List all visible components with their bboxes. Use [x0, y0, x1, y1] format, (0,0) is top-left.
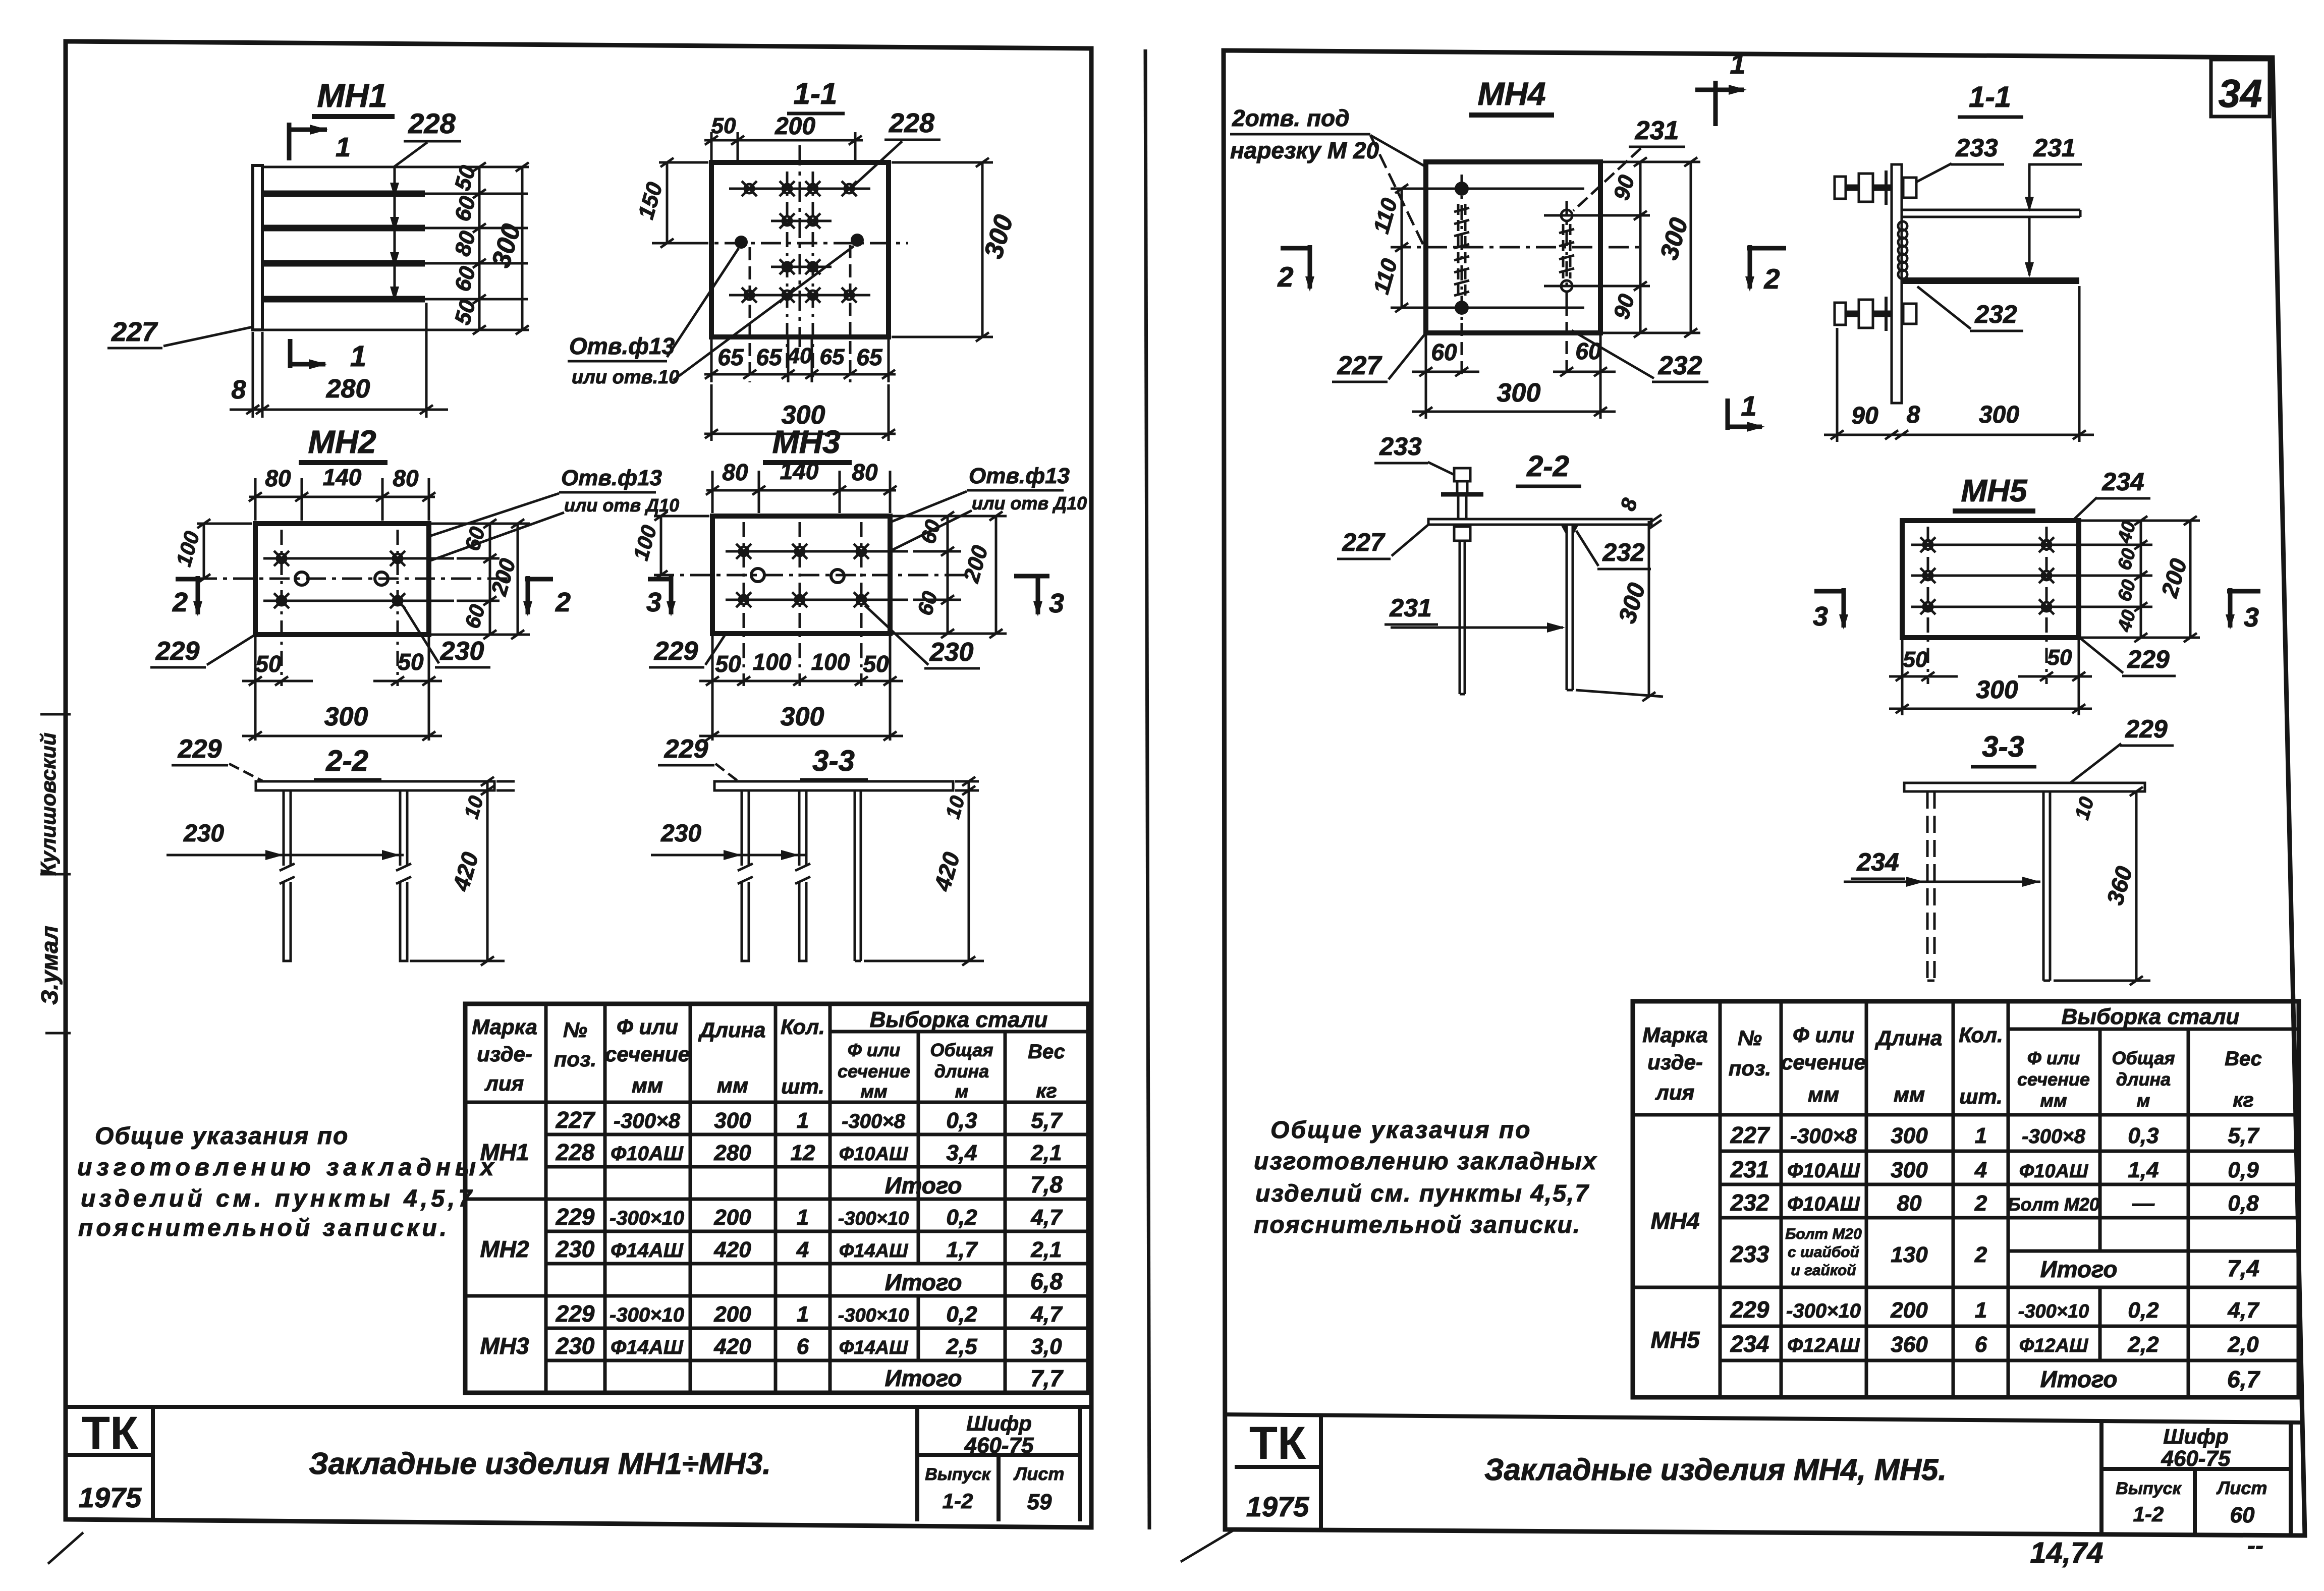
plate 229 МН3 — [712, 516, 890, 634]
svg-text:12: 12 — [791, 1141, 815, 1165]
anchors 230 row2 МН2 — [263, 593, 454, 608]
svg-text:6,7: 6,7 — [2227, 1366, 2260, 1392]
svg-text:14,74: 14,74 — [2030, 1537, 2103, 1569]
table grid right — [1633, 1001, 2299, 1397]
svg-text:1975: 1975 — [1246, 1491, 1309, 1522]
svg-text:230: 230 — [929, 638, 974, 667]
svg-text:-300×8: -300×8 — [1790, 1124, 1857, 1148]
svg-text:1-2: 1-2 — [943, 1489, 973, 1513]
svg-text:100: 100 — [811, 649, 850, 675]
dim 300 right 1-1 — [892, 158, 1019, 342]
label 229 МН5 — [2081, 639, 2176, 676]
svg-text:шт.: шт. — [1959, 1085, 2003, 1108]
svg-text:6: 6 — [797, 1334, 809, 1359]
rod 231 top (1-1 right) — [1902, 210, 2080, 217]
svg-text:пояснительной записки.: пояснительной записки. — [78, 1215, 450, 1241]
label 228 (1-1) — [854, 108, 940, 186]
left page frame — [66, 41, 1091, 1527]
table rows МН4 — [1650, 1122, 2260, 1282]
svg-text:300: 300 — [714, 1108, 751, 1133]
svg-text:Лист: Лист — [2216, 1478, 2267, 1498]
svg-text:-300×8: -300×8 — [2022, 1125, 2085, 1148]
anchors 230 row1 МН3 — [726, 544, 908, 559]
svg-text:МН5: МН5 — [1961, 474, 2028, 508]
svg-text:0,2: 0,2 — [946, 1302, 977, 1327]
table grid — [465, 1004, 1088, 1393]
svg-text:З.умал: З.умал — [36, 926, 63, 1005]
svg-text:Вес: Вес — [1028, 1041, 1065, 1063]
dim 230 in 3-3 — [651, 820, 806, 860]
hole row lines МН4 — [1408, 189, 1650, 308]
svg-text:4: 4 — [796, 1237, 809, 1262]
section marker 1 top right (МН4) — [1695, 48, 1747, 126]
table rows МН5 — [1650, 1296, 2260, 1392]
section marker 2 right МН2 — [523, 576, 571, 617]
dim 230 in 2-2 — [167, 820, 404, 860]
svg-text:Ф12АШ: Ф12АШ — [2019, 1335, 2088, 1356]
svg-text:420: 420 — [713, 1334, 751, 1359]
svg-text:2: 2 — [555, 587, 571, 617]
svg-text:Выборка стали: Выборка стали — [2062, 1004, 2240, 1029]
svg-text:230: 230 — [183, 820, 224, 847]
svg-text:МН4: МН4 — [1650, 1208, 1699, 1234]
svg-text:Кол.: Кол. — [1959, 1023, 2003, 1047]
svg-text:80: 80 — [1897, 1191, 1922, 1216]
svg-text:50: 50 — [255, 651, 282, 677]
anchor 230 right in 2-2 — [396, 790, 411, 961]
svg-text:3-3: 3-3 — [812, 745, 855, 777]
svg-text:-300×8: -300×8 — [842, 1110, 905, 1132]
bolt 233 bottom (1-1 right) — [1835, 297, 1916, 331]
title block left page — [48, 1407, 1091, 1564]
label 232 (2-2 right) — [1576, 531, 1651, 569]
svg-text:2,1: 2,1 — [1030, 1237, 1062, 1262]
svg-text:1975: 1975 — [79, 1482, 142, 1513]
section marker 3 right МН3 — [1014, 576, 1064, 618]
anchors 231/232 column — [1559, 201, 1574, 303]
svg-text:50: 50 — [2048, 645, 2072, 670]
svg-text:230: 230 — [660, 820, 701, 847]
plate 227 (2-2 right) — [1428, 519, 1651, 525]
svg-text:МН2: МН2 — [480, 1236, 529, 1262]
svg-text:МН3: МН3 — [772, 424, 840, 460]
section marker 3 right МН5 — [2226, 588, 2260, 633]
svg-text:2-2: 2-2 — [325, 745, 368, 777]
dim 300 bottom МН2 — [242, 702, 442, 741]
svg-text:230: 230 — [440, 637, 484, 666]
svg-text:-300×8: -300×8 — [614, 1109, 681, 1132]
svg-text:460-75: 460-75 — [964, 1433, 1034, 1458]
svg-text:300: 300 — [1891, 1158, 1928, 1182]
svg-text:40: 40 — [787, 344, 812, 368]
anchor column lines МН2 — [282, 530, 398, 686]
svg-text:65: 65 — [756, 344, 783, 370]
label 233 (1-1 right) — [1911, 134, 2004, 185]
МН2 title — [299, 424, 388, 463]
svg-text:Ф14АШ: Ф14АШ — [839, 1240, 908, 1262]
anchor plate 232 (1-1 right) — [1902, 277, 2079, 284]
svg-text:Закладные изделия МН4, МН5.: Закладные изделия МН4, МН5. — [1484, 1453, 1947, 1487]
dims 60/60 and 200 right МН2 — [431, 519, 530, 639]
svg-text:Марка: Марка — [472, 1015, 537, 1039]
svg-text:232: 232 — [1974, 300, 2017, 328]
svg-text:Болт М20: Болт М20 — [2008, 1194, 2099, 1215]
svg-text:пояснительной записки.: пояснительной записки. — [1254, 1212, 1581, 1238]
svg-text:Ф10АШ: Ф10АШ — [1787, 1193, 1860, 1215]
svg-text:Отв.ф13: Отв.ф13 — [561, 466, 662, 490]
svg-text:№: № — [1738, 1026, 1762, 1050]
section marker 3 left МН5 — [1813, 588, 1848, 632]
label Отв ф13 МН3 — [762, 464, 1087, 575]
anchors 234 row2 МН5 — [1911, 568, 2152, 583]
svg-text:229: 229 — [2125, 715, 2168, 743]
svg-text:длина: длина — [2116, 1069, 2171, 1090]
anchor 230 no.2 in 3-3 — [795, 790, 810, 961]
vertical centerline 1-1 — [799, 145, 801, 353]
section marker 1 bottom (МН4) — [1728, 390, 1765, 432]
label 230 МН3 — [865, 605, 980, 668]
sheet fold line between pages — [1145, 49, 1149, 1529]
svg-text:4: 4 — [1974, 1158, 1987, 1182]
svg-text:2: 2 — [1974, 1191, 1987, 1216]
svg-text:1: 1 — [797, 1108, 809, 1133]
svg-text:поз.: поз. — [1729, 1056, 1771, 1080]
corner fold mark right — [1181, 1530, 1233, 1562]
svg-text:234: 234 — [1730, 1331, 1769, 1357]
plate 229 section 3-3 — [714, 781, 953, 790]
label 233 (2-2 right) — [1374, 432, 1457, 476]
svg-text:460-75: 460-75 — [2161, 1446, 2231, 1471]
dim 8 (2-2 right) — [1616, 495, 1662, 529]
label 231 МН4 — [1573, 116, 1685, 211]
dim 100 left МН3 — [629, 512, 709, 580]
anchors 228 row3 — [771, 259, 832, 274]
plate 227 МН1 side view — [253, 165, 262, 330]
svg-text:МН3: МН3 — [480, 1333, 529, 1359]
svg-text:80: 80 — [722, 459, 748, 485]
label 228 with leader — [390, 107, 461, 302]
title block right page — [1181, 1414, 2303, 1569]
svg-text:231: 231 — [1730, 1156, 1769, 1182]
svg-text:м: м — [955, 1081, 969, 1102]
svg-text:2: 2 — [1763, 263, 1780, 295]
section marker 1 bottom (МН1) — [290, 339, 366, 373]
svg-text:4,7: 4,7 — [1030, 1302, 1063, 1327]
svg-text:228: 228 — [556, 1139, 595, 1165]
page number box 34 — [2211, 60, 2270, 117]
svg-text:Итого: Итого — [2040, 1366, 2118, 1392]
svg-text:65: 65 — [717, 344, 744, 370]
svg-text:300: 300 — [324, 702, 368, 731]
svg-text:нарезку М 20: нарезку М 20 — [1230, 137, 1379, 163]
svg-text:228: 228 — [408, 107, 456, 139]
dims 60/60 bottom МН4 — [1412, 303, 1616, 419]
svg-text:8: 8 — [1907, 402, 1920, 428]
svg-text:231: 231 — [1389, 594, 1431, 622]
anchors 230 row2 МН3 — [726, 592, 908, 607]
svg-text:3: 3 — [2244, 602, 2259, 633]
svg-text:2: 2 — [172, 587, 188, 617]
svg-text:Болт М20: Болт М20 — [1785, 1226, 1862, 1242]
svg-text:50: 50 — [711, 113, 736, 138]
svg-text:--: -- — [2247, 1532, 2263, 1559]
label 227 with leader — [107, 317, 253, 348]
svg-text:Лист: Лист — [1013, 1463, 1065, 1484]
svg-text:280: 280 — [326, 374, 370, 404]
svg-text:300: 300 — [781, 702, 824, 731]
svg-text:3: 3 — [1813, 601, 1828, 632]
svg-text:Ф10АШ: Ф10АШ — [611, 1143, 684, 1165]
svg-text:232: 232 — [1602, 538, 1645, 566]
dims 60/60 and 200 right МН3 — [892, 512, 1007, 638]
svg-text:229: 229 — [556, 1300, 595, 1327]
label 2 отв под нарезку М20 — [1230, 105, 1457, 307]
svg-text:-300×10: -300×10 — [610, 1304, 684, 1326]
svg-text:65: 65 — [856, 344, 883, 370]
svg-text:1: 1 — [350, 340, 366, 373]
svg-text:-300×10: -300×10 — [610, 1207, 684, 1229]
svg-text:МН2: МН2 — [308, 424, 376, 460]
svg-text:ТК: ТК — [1249, 1417, 1306, 1469]
dim 300 bottom МН3 — [699, 702, 903, 741]
svg-text:227: 227 — [1337, 351, 1382, 380]
svg-text:сечение: сечение — [605, 1042, 690, 1066]
svg-text:130: 130 — [1891, 1242, 1928, 1267]
МН1 title — [312, 77, 395, 117]
centerline МН4 horizontal — [1391, 246, 1643, 249]
svg-text:200: 200 — [713, 1302, 751, 1327]
svg-text:229: 229 — [664, 734, 708, 764]
svg-text:Итого: Итого — [885, 1172, 962, 1199]
svg-text:1: 1 — [1975, 1123, 1987, 1148]
svg-text:изделий см. пункты 4,5,7: изделий см. пункты 4,5,7 — [1255, 1180, 1589, 1207]
anchors 234 row1 МН5 — [1911, 537, 2152, 552]
svg-text:изготовлению закладных: изготовлению закладных — [1254, 1148, 1597, 1175]
svg-text:Шифр: Шифр — [2163, 1425, 2229, 1448]
anchor rod 228 no.4 — [263, 296, 528, 303]
label 231 with arrow (2-2 right) — [1385, 594, 1565, 633]
svg-text:420: 420 — [713, 1237, 751, 1262]
svg-text:Ф10АШ: Ф10АШ — [839, 1144, 908, 1165]
dims 110/110 left МН4 — [1369, 184, 1446, 312]
svg-text:мм: мм — [1894, 1083, 1925, 1106]
dims 50/50 bottom МН5 — [1889, 640, 2092, 715]
svg-text:0,3: 0,3 — [946, 1108, 977, 1133]
svg-text:Ф или: Ф или — [2027, 1048, 2080, 1068]
table rows МН3 — [480, 1300, 1064, 1391]
svg-text:мм: мм — [632, 1073, 663, 1097]
svg-text:Итого: Итого — [2040, 1256, 2118, 1282]
centerline МН2 — [197, 578, 510, 580]
svg-text:Ф14АШ: Ф14АШ — [839, 1337, 908, 1358]
anchor 232 (2-2 right) — [1561, 525, 1579, 690]
svg-text:2,0: 2,0 — [2227, 1332, 2259, 1357]
svg-text:227: 227 — [1342, 528, 1386, 556]
svg-text:140: 140 — [780, 458, 819, 484]
svg-text:длина: длина — [934, 1061, 989, 1082]
anchors 234 row3 МН5 — [1911, 599, 2152, 614]
anchor rod 228 no.1 — [263, 191, 528, 197]
svg-text:Общая: Общая — [930, 1040, 993, 1060]
svg-text:1-1: 1-1 — [794, 77, 838, 110]
1-1 title right page — [1958, 81, 2023, 117]
2-2 title (left page) — [314, 745, 381, 780]
anchor 230 no.3 in 3-3 — [855, 790, 861, 961]
dim 300 bottom МН4 — [1412, 378, 1616, 416]
svg-text:или отв.10: или отв.10 — [572, 367, 679, 388]
svg-text:Длина: Длина — [698, 1018, 766, 1042]
svg-text:140: 140 — [323, 464, 362, 490]
svg-text:280: 280 — [713, 1141, 751, 1165]
svg-text:Закладные изделия МН1÷МН3.: Закладные изделия МН1÷МН3. — [309, 1447, 771, 1481]
svg-text:Ф14АШ: Ф14АШ — [611, 1336, 684, 1358]
svg-text:с шайбой: с шайбой — [1788, 1244, 1859, 1261]
svg-text:229: 229 — [155, 637, 200, 666]
svg-text:1: 1 — [797, 1302, 809, 1327]
svg-text:229: 229 — [654, 637, 698, 666]
svg-text:80: 80 — [265, 465, 291, 491]
dim 8 and 280 МН1 bottom — [230, 303, 448, 418]
centerline МН3 — [654, 574, 969, 577]
svg-text:0,2: 0,2 — [2128, 1298, 2159, 1323]
svg-text:сечение: сечение — [838, 1061, 910, 1082]
svg-text:2отв. под: 2отв. под — [1232, 105, 1350, 131]
dim 300 (2-2 right) — [1576, 521, 1663, 701]
svg-text:2,2: 2,2 — [2127, 1332, 2159, 1357]
svg-text:300: 300 — [1497, 378, 1541, 408]
2-2 title right page — [1516, 450, 1581, 486]
svg-text:234: 234 — [1856, 848, 1899, 876]
svg-text:7,7: 7,7 — [1030, 1365, 1064, 1391]
label 234 МН5 — [2051, 468, 2150, 542]
svg-text:59: 59 — [1027, 1490, 1052, 1514]
holes ф13 МН2 — [295, 572, 388, 585]
3-3 title (left page) — [800, 745, 868, 780]
svg-text:227: 227 — [556, 1107, 596, 1133]
plate top edge line — [262, 166, 529, 168]
plate 229 МН5 — [1902, 521, 2079, 638]
svg-text:50: 50 — [715, 651, 741, 677]
svg-text:231: 231 — [1635, 116, 1679, 145]
notes text block right page — [1254, 1117, 1597, 1238]
svg-text:300: 300 — [1891, 1123, 1928, 1148]
dim 420 and 10 right 3-3 — [864, 777, 984, 965]
svg-text:МН5: МН5 — [1650, 1327, 1700, 1353]
svg-text:лия: лия — [1655, 1081, 1695, 1104]
svg-text:Общие указачия по: Общие указачия по — [1270, 1117, 1532, 1144]
svg-text:0,3: 0,3 — [2128, 1123, 2159, 1148]
svg-text:—: — — [2132, 1191, 2155, 1216]
svg-text:229: 229 — [2127, 645, 2170, 673]
notes text block left page — [77, 1123, 499, 1241]
washer circles (1-1 right) — [1898, 221, 1907, 279]
svg-text:Кулишовский: Кулишовский — [36, 732, 60, 876]
svg-text:Итого: Итого — [885, 1365, 962, 1391]
svg-text:34: 34 — [2219, 71, 2262, 116]
svg-text:изде-: изде- — [477, 1042, 532, 1066]
label 227 (2-2 right) — [1337, 525, 1428, 559]
svg-text:227: 227 — [1730, 1122, 1770, 1148]
svg-text:6,8: 6,8 — [1030, 1268, 1063, 1294]
svg-text:-300×10: -300×10 — [2018, 1301, 2089, 1322]
svg-text:МН1: МН1 — [480, 1139, 529, 1165]
label 229 МН3 — [649, 636, 725, 667]
horizontal centerline 1-1 — [652, 242, 908, 245]
svg-text:60: 60 — [1431, 339, 1457, 365]
plate 229 МН2 — [255, 524, 429, 635]
anchor column lines МН5 — [1928, 527, 2046, 684]
corner fold mark — [48, 1532, 83, 1564]
svg-text:0,9: 0,9 — [2228, 1158, 2259, 1182]
bolt 233 top (1-1 right) — [1835, 171, 1916, 205]
svg-text:Ф12АШ: Ф12АШ — [1787, 1334, 1860, 1356]
section marker 2 left МН2 — [172, 576, 202, 617]
svg-text:50: 50 — [863, 651, 889, 677]
label Отв ф13 МН2 — [306, 466, 679, 577]
svg-text:Выборка стали: Выборка стали — [870, 1007, 1048, 1032]
label 227 МН4 — [1332, 333, 1426, 382]
svg-text:4,7: 4,7 — [2227, 1298, 2260, 1323]
plate bottom edge line — [253, 329, 529, 331]
hole ф13 left — [735, 236, 748, 249]
dim 80-140-80 top МН3 — [706, 458, 897, 513]
svg-text:Шифр: Шифр — [966, 1411, 1032, 1435]
label 232 МН4 — [1572, 330, 1708, 382]
svg-text:230: 230 — [556, 1236, 595, 1262]
svg-text:7,4: 7,4 — [2227, 1255, 2259, 1281]
plate 229 section 2-2 — [256, 781, 494, 790]
plate 229 (3-3 right) — [1904, 783, 2145, 791]
svg-text:6: 6 — [1975, 1332, 1987, 1357]
svg-text:228: 228 — [889, 108, 934, 138]
1-1 title (left page) — [787, 77, 845, 113]
svg-text:233: 233 — [1730, 1241, 1769, 1267]
svg-text:300: 300 — [1976, 675, 2018, 704]
svg-text:200: 200 — [774, 113, 815, 140]
section marker 1 top (МН1) — [289, 123, 351, 162]
svg-text:изделий см. пункты 4,5,7: изделий см. пункты 4,5,7 — [81, 1185, 475, 1212]
dim 420 and 10 right 2-2 — [410, 777, 515, 965]
svg-text:МН1: МН1 — [317, 77, 387, 114]
svg-text:изде-: изде- — [1647, 1050, 1703, 1074]
svg-text:Ф или: Ф или — [1793, 1023, 1854, 1047]
dim 150 left 1-1 — [633, 158, 708, 248]
svg-text:80: 80 — [393, 465, 419, 491]
svg-text:Вес: Вес — [2225, 1048, 2262, 1070]
svg-text:3-3: 3-3 — [1982, 730, 2024, 763]
МН4 title — [1469, 76, 1554, 115]
label 229 МН2 — [150, 635, 255, 667]
svg-text:Итого: Итого — [885, 1269, 962, 1295]
svg-text:-300×10: -300×10 — [1786, 1300, 1861, 1322]
svg-text:мм: мм — [2040, 1090, 2067, 1111]
svg-text:-300×10: -300×10 — [838, 1208, 909, 1229]
threaded holes М20 column — [1454, 175, 1469, 323]
svg-text:1: 1 — [797, 1205, 809, 1230]
dim 65-65-40-65-65 bottom 1-1 — [704, 245, 896, 382]
3-3 title right page — [1971, 730, 2036, 767]
svg-text:1-2: 1-2 — [2133, 1502, 2164, 1526]
svg-text:229: 229 — [178, 734, 222, 764]
svg-text:шт.: шт. — [781, 1074, 824, 1098]
svg-text:1: 1 — [1730, 48, 1745, 80]
label 229 (3-3 right) — [2068, 715, 2174, 785]
label 229 section 3-3 — [658, 734, 738, 781]
anchors 228 row1 — [729, 181, 870, 196]
svg-text:229: 229 — [556, 1204, 595, 1230]
label 230 МН2 — [403, 605, 490, 667]
svg-text:Отв.ф13: Отв.ф13 — [969, 464, 1070, 488]
